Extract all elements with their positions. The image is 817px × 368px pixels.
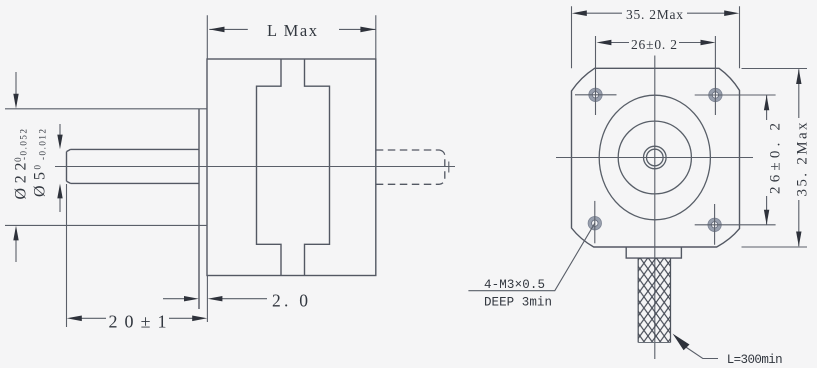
svg-text:4-M3×0.5: 4-M3×0.5 [484, 278, 545, 292]
svg-text:35. 2Max: 35. 2Max [795, 122, 811, 197]
svg-text:35. 2Max: 35. 2Max [626, 7, 683, 22]
svg-text:Ø22: Ø22 [12, 163, 29, 200]
svg-text:-0.052: -0.052 [18, 129, 28, 160]
svg-text:0: 0 [32, 165, 42, 170]
svg-text:L Max: L Max [267, 21, 318, 40]
svg-text:-0.012: -0.012 [38, 129, 48, 160]
svg-text:L=300min: L=300min [727, 353, 783, 367]
svg-text:26±0. 2: 26±0. 2 [631, 37, 677, 52]
svg-text:DEEP 3min: DEEP 3min [484, 296, 552, 310]
